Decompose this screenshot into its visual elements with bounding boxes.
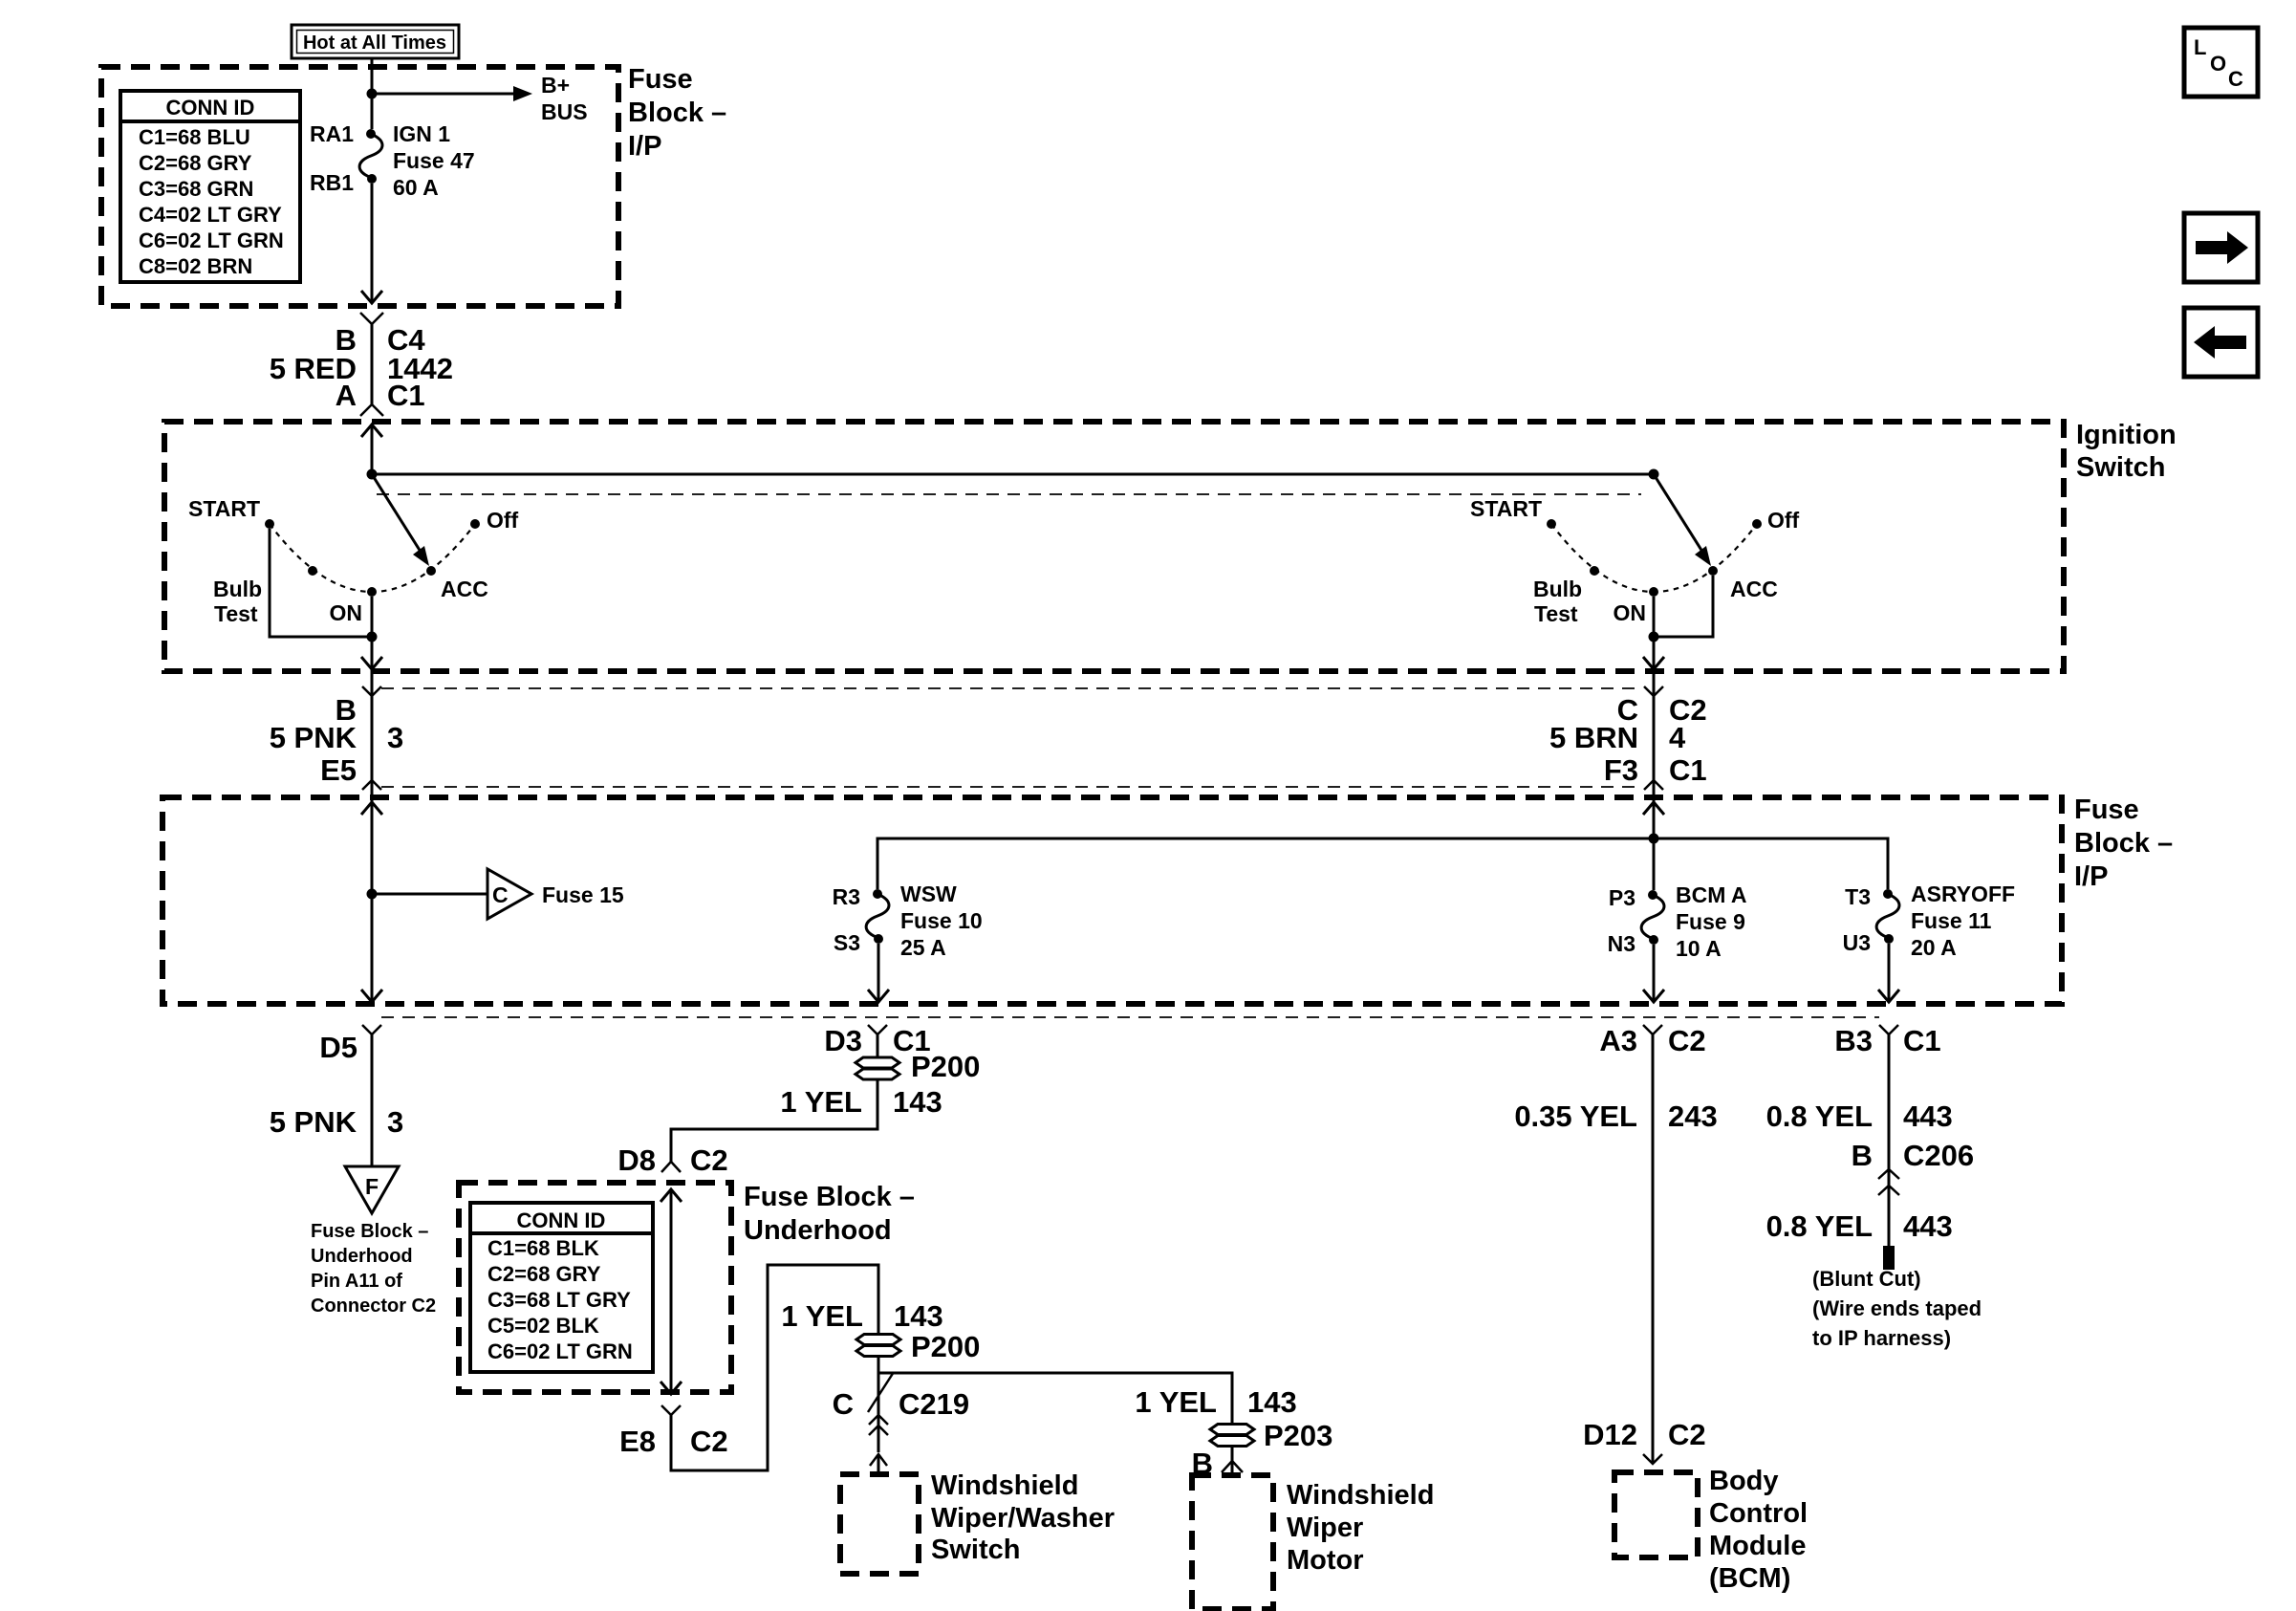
- note Fuse Block Underhood Pin A11: [311, 1221, 436, 1317]
- node Off: [470, 519, 480, 529]
- svg-text:C2: C2: [690, 1143, 728, 1177]
- svg-text:Hot at All Times: Hot at All Times: [303, 33, 446, 54]
- svg-text:143: 143: [1247, 1385, 1297, 1419]
- svg-text:C2=68 GRY: C2=68 GRY: [139, 151, 252, 175]
- svg-text:A: A: [336, 379, 357, 412]
- svg-text:0.8 YEL: 0.8 YEL: [1766, 1209, 1873, 1243]
- svg-text:10 A: 10 A: [1676, 936, 1722, 961]
- svg-text:WSW: WSW: [900, 882, 957, 906]
- svg-text:Windshield: Windshield: [1287, 1480, 1434, 1511]
- svg-text:1 YEL: 1 YEL: [1135, 1385, 1217, 1419]
- fuse WSW Fuse 10 25 A: [833, 882, 983, 960]
- svg-text:C6=02 LT GRN: C6=02 LT GRN: [139, 229, 284, 252]
- wire below ASRYOFF fuse with arrow: [1888, 944, 1891, 1001]
- svg-text:A3: A3: [1599, 1024, 1637, 1057]
- node output junction: [1649, 632, 1659, 642]
- connector C/C219 in-line: [833, 1372, 970, 1435]
- Hot at All Times label box: [292, 25, 459, 58]
- blunt cut wire end: [1883, 1246, 1895, 1270]
- svg-text:25 A: 25 A: [900, 935, 946, 960]
- svg-text:0.35 YEL: 0.35 YEL: [1514, 1099, 1637, 1133]
- svg-text:C: C: [492, 882, 509, 907]
- svg-text:D12: D12: [1583, 1418, 1637, 1451]
- wire into P200 grommet: [877, 1034, 879, 1057]
- svg-text:443: 443: [1903, 1209, 1953, 1243]
- svg-text:(Wire ends taped: (Wire ends taped: [1812, 1296, 1982, 1320]
- fuse BCM A Fuse 9 10 A: [1608, 882, 1747, 961]
- svg-text:START: START: [188, 496, 260, 521]
- fuse IGN 1 Fuse 47 60 A: [310, 121, 475, 200]
- svg-text:Off: Off: [487, 508, 519, 533]
- svg-text:143: 143: [893, 1085, 942, 1119]
- svg-text:P3: P3: [1609, 885, 1635, 910]
- wire ON leg: [371, 597, 374, 637]
- note blunt cut: [1812, 1267, 1982, 1350]
- svg-text:Off: Off: [1767, 508, 1800, 533]
- svg-text:S3: S3: [834, 930, 860, 955]
- wire exit with down arrow: [1653, 637, 1656, 668]
- svg-text:CONN ID: CONN ID: [517, 1208, 606, 1232]
- svg-text:U3: U3: [1843, 930, 1871, 955]
- node bus junction: [1649, 834, 1659, 844]
- right-arrow nav box: [2184, 213, 2258, 282]
- svg-text:Fuse 11: Fuse 11: [1911, 908, 1992, 933]
- svg-text:143: 143: [894, 1299, 943, 1333]
- svg-text:C3=68 GRN: C3=68 GRN: [139, 177, 253, 201]
- wire B+ BUS arrow: [372, 93, 513, 96]
- svg-text:I/P: I/P: [628, 131, 661, 162]
- connector B/C4 pass-through symbols: [270, 313, 453, 416]
- svg-text:C1: C1: [387, 379, 425, 412]
- svg-text:5 BRN: 5 BRN: [1549, 721, 1638, 754]
- svg-text:Test: Test: [214, 601, 258, 626]
- connector A3/C2: [1599, 1024, 1705, 1057]
- svg-text:E8: E8: [619, 1425, 656, 1458]
- svg-text:4: 4: [1669, 721, 1686, 754]
- svg-text:Fuse 9: Fuse 9: [1676, 909, 1745, 934]
- node ignition feed junction: [367, 469, 378, 480]
- wire 0.8 YEL 443: [1888, 1034, 1891, 1246]
- grommet P200: [856, 1050, 980, 1083]
- node START: [1547, 519, 1556, 529]
- wire cross-bus between switch poles: [372, 473, 1654, 476]
- node B+ tap junction: [367, 89, 378, 99]
- svg-text:D3: D3: [824, 1024, 862, 1057]
- svg-text:1 YEL: 1 YEL: [781, 1299, 863, 1333]
- wire to Fuse 15 pointer: [372, 893, 487, 896]
- svg-text:Fuse: Fuse: [2074, 795, 2139, 825]
- svg-text:C: C: [2228, 67, 2243, 91]
- label Fuse Block - I/P (top): [628, 64, 726, 162]
- svg-text:C3=68 LT GRY: C3=68 LT GRY: [487, 1288, 631, 1312]
- wire ON to ACC leg: [1653, 597, 1656, 637]
- svg-text:P203: P203: [1264, 1419, 1332, 1452]
- pin C entry into switch: [870, 1454, 887, 1466]
- svg-text:(BCM): (BCM): [1709, 1563, 1790, 1594]
- connector D8/C2 half: [617, 1143, 727, 1177]
- wire rotor arrow to ACC: [1654, 474, 1702, 552]
- svg-text:5 PNK: 5 PNK: [270, 721, 357, 754]
- node ON: [1649, 587, 1658, 597]
- svg-text:3: 3: [387, 1105, 403, 1139]
- fuse ASRYOFF Fuse 11 20 A: [1843, 882, 2015, 960]
- wire entry into ignition switch with up arrow: [361, 425, 382, 437]
- svg-text:P200: P200: [911, 1330, 980, 1363]
- Windshield Wiper Motor box: [1192, 1475, 1273, 1609]
- pointer triangle F: [345, 1166, 399, 1213]
- node ON: [367, 587, 377, 597]
- svg-text:Module: Module: [1709, 1531, 1807, 1561]
- svg-text:D5: D5: [319, 1031, 357, 1064]
- mechanical link dashed line: [377, 493, 1641, 495]
- svg-text:ACC: ACC: [441, 577, 488, 601]
- wire rotor arrow to ACC: [372, 474, 421, 552]
- in-line harness band below ignition switch: [381, 688, 1643, 787]
- connector C/F3 (right): [1549, 669, 1707, 790]
- svg-text:C206: C206: [1903, 1139, 1974, 1172]
- svg-text:3: 3: [387, 721, 403, 754]
- svg-text:Windshield: Windshield: [931, 1470, 1078, 1501]
- svg-text:F: F: [365, 1174, 379, 1199]
- svg-text:O: O: [2210, 52, 2226, 76]
- connector B/C206: [1852, 1139, 1975, 1195]
- node Bulb Test: [1590, 566, 1599, 576]
- Windshield Wiper/Washer Switch box: [840, 1474, 919, 1574]
- svg-text:C1=68 BLK: C1=68 BLK: [487, 1236, 599, 1260]
- switch arc: [1551, 524, 1757, 592]
- svg-text:B: B: [1852, 1139, 1873, 1172]
- svg-text:C2: C2: [1668, 1024, 1706, 1057]
- node ACC: [1708, 566, 1718, 576]
- wire 5 PNK 3 to F pointer: [371, 1034, 374, 1166]
- svg-text:243: 243: [1668, 1099, 1718, 1133]
- wire START leg: [270, 529, 372, 637]
- svg-text:C4=02 LT GRY: C4=02 LT GRY: [139, 203, 282, 227]
- wire from Hot at All Times down into fuse block: [371, 58, 374, 129]
- svg-text:IGN 1: IGN 1: [393, 121, 450, 146]
- svg-text:Wiper: Wiper: [1287, 1513, 1363, 1543]
- wire branch to wiper motor: [878, 1373, 1232, 1425]
- svg-text:ON: ON: [1614, 600, 1647, 625]
- wire through underhood block with entry arrow: [661, 1189, 682, 1202]
- CONN ID table (I/P fuse block): [120, 91, 300, 282]
- svg-text:C2: C2: [1668, 1418, 1706, 1451]
- svg-text:C6=02 LT GRN: C6=02 LT GRN: [487, 1339, 633, 1363]
- switch arc: [270, 524, 475, 592]
- svg-text:Control: Control: [1709, 1498, 1808, 1529]
- wire from fuse down to box edge with arrow: [371, 184, 374, 303]
- exit down arrow: [661, 1382, 682, 1394]
- wire below P200 to switch: [877, 1356, 880, 1452]
- svg-text:C8=02 BRN: C8=02 BRN: [139, 254, 252, 278]
- left ignition switch pole: [188, 474, 519, 669]
- Fuse Block - Underhood box: [459, 1183, 731, 1392]
- svg-text:BCM A: BCM A: [1676, 882, 1747, 907]
- left-arrow nav box: [2184, 308, 2258, 377]
- svg-text:Fuse Block –: Fuse Block –: [311, 1221, 428, 1242]
- wire E8 loop back up to P200: [671, 1265, 878, 1470]
- svg-text:C2: C2: [690, 1425, 728, 1458]
- svg-text:ASRYOFF: ASRYOFF: [1911, 882, 2015, 906]
- svg-text:C5=02 BLK: C5=02 BLK: [487, 1314, 599, 1338]
- svg-text:START: START: [1470, 496, 1542, 521]
- node START: [265, 519, 274, 529]
- Body Control Module box: [1614, 1472, 1698, 1557]
- node Off: [1752, 519, 1762, 529]
- svg-text:C219: C219: [899, 1387, 969, 1421]
- svg-text:N3: N3: [1608, 931, 1635, 956]
- svg-text:Fuse 47: Fuse 47: [393, 148, 475, 173]
- svg-text:Connector C2: Connector C2: [311, 1295, 436, 1317]
- svg-text:I/P: I/P: [2074, 861, 2108, 892]
- svg-text:Body: Body: [1709, 1466, 1779, 1496]
- svg-text:BUS: BUS: [541, 99, 588, 124]
- svg-text:Fuse: Fuse: [628, 64, 693, 95]
- svg-text:Pin A11 of: Pin A11 of: [311, 1271, 402, 1292]
- node Bulb Test: [308, 566, 317, 576]
- svg-text:L: L: [2194, 35, 2206, 59]
- wire below BCM A fuse with arrow: [1653, 945, 1656, 1001]
- node Fuse 15 tap: [367, 889, 378, 900]
- wire below WSW fuse with arrow: [877, 944, 880, 1001]
- svg-text:Bulb: Bulb: [213, 577, 262, 601]
- svg-text:Fuse 15: Fuse 15: [542, 882, 624, 907]
- LOC legend box (top right): [2184, 28, 2258, 97]
- svg-text:Underhood: Underhood: [311, 1246, 413, 1267]
- right ignition switch pole: [1470, 474, 1800, 669]
- node output junction: [367, 632, 378, 642]
- svg-text:Block –: Block –: [2074, 828, 2173, 859]
- node ACC: [426, 566, 436, 576]
- svg-text:ON: ON: [330, 600, 363, 625]
- wire below P203, pin B into motor: [1231, 1446, 1234, 1461]
- svg-text:CONN ID: CONN ID: [166, 96, 255, 120]
- Fuse Block - I/P box (top): [101, 67, 618, 306]
- svg-text:C: C: [833, 1387, 854, 1421]
- svg-text:Ignition: Ignition: [2076, 420, 2177, 450]
- svg-text:1 YEL: 1 YEL: [780, 1085, 862, 1119]
- svg-text:5 PNK: 5 PNK: [270, 1105, 357, 1139]
- wire left branch to bottom edge with arrow: [371, 894, 374, 1001]
- connector B/E5 (left): [270, 669, 404, 790]
- svg-text:Test: Test: [1534, 601, 1578, 626]
- Ignition Switch box: [164, 422, 2064, 671]
- svg-text:R3: R3: [833, 884, 860, 909]
- svg-text:RA1: RA1: [310, 121, 354, 146]
- svg-text:Motor: Motor: [1287, 1545, 1364, 1576]
- svg-text:Bulb: Bulb: [1533, 577, 1582, 601]
- svg-text:C2=68 GRY: C2=68 GRY: [487, 1262, 601, 1286]
- svg-text:D8: D8: [617, 1143, 656, 1177]
- svg-text:F3: F3: [1604, 753, 1638, 787]
- connector D3/C1: [824, 1024, 930, 1057]
- svg-text:C1: C1: [1669, 753, 1707, 787]
- svg-text:Wiper/Washer: Wiper/Washer: [931, 1503, 1115, 1534]
- svg-text:Fuse Block –: Fuse Block –: [744, 1182, 915, 1212]
- wire left feed into fuse block with up arrow: [361, 802, 382, 815]
- wire internal bus: [877, 838, 1888, 889]
- svg-text:0.8 YEL: 0.8 YEL: [1766, 1099, 1873, 1133]
- svg-text:to IP harness): to IP harness): [1812, 1326, 1951, 1350]
- connector B3/C1: [1834, 1024, 1940, 1057]
- svg-text:P200: P200: [911, 1050, 980, 1083]
- grommet P200 (second): [856, 1330, 980, 1363]
- svg-text:Block –: Block –: [628, 98, 726, 128]
- connector D5: [319, 1025, 381, 1064]
- svg-text:(Blunt Cut): (Blunt Cut): [1812, 1267, 1921, 1291]
- svg-text:B3: B3: [1834, 1024, 1873, 1057]
- svg-text:60 A: 60 A: [393, 175, 439, 200]
- wire 1 YEL 143 down and left to D8: [671, 1079, 877, 1162]
- wire right feed into fuse block with up arrow: [1643, 802, 1664, 815]
- svg-text:C1: C1: [1903, 1024, 1941, 1057]
- harness dashed line below fuse block: [381, 1016, 1879, 1018]
- svg-text:20 A: 20 A: [1911, 935, 1957, 960]
- svg-text:Underhood: Underhood: [744, 1215, 892, 1246]
- svg-text:Fuse 10: Fuse 10: [900, 908, 983, 933]
- svg-text:RB1: RB1: [310, 170, 354, 195]
- svg-text:Switch: Switch: [931, 1535, 1020, 1565]
- connector D12/C2: [1583, 1418, 1706, 1464]
- svg-text:T3: T3: [1845, 884, 1871, 909]
- pointer triangle C Fuse 15: [487, 869, 531, 919]
- svg-text:C1=68 BLU: C1=68 BLU: [139, 125, 250, 149]
- svg-text:E5: E5: [320, 753, 357, 787]
- wire exit with down arrow: [371, 637, 374, 668]
- svg-text:Switch: Switch: [2076, 452, 2165, 483]
- Fuse Block - I/P box (lower): [162, 797, 2062, 1004]
- svg-text:B+: B+: [541, 73, 570, 98]
- wire 0.35 YEL 243 down to BCM: [1652, 1034, 1655, 1462]
- svg-text:ACC: ACC: [1730, 577, 1778, 601]
- grommet P203: [1210, 1419, 1332, 1452]
- svg-text:443: 443: [1903, 1099, 1953, 1133]
- CONN ID table (underhood fuse block): [470, 1203, 653, 1372]
- connector E8/C2 half: [619, 1405, 728, 1458]
